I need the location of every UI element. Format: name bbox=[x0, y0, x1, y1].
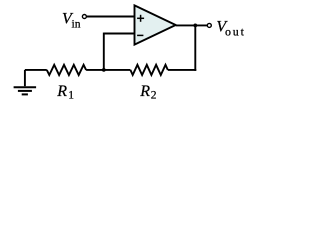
op-amp plus sign (non-inverting input marker) bbox=[137, 15, 144, 22]
svg-text:out: out bbox=[225, 25, 246, 39]
resistor R1 bbox=[47, 65, 86, 75]
resistor R2 bbox=[130, 65, 167, 75]
op-amp minus sign (inverting input marker) bbox=[137, 34, 143, 36]
node A junction dot bbox=[102, 68, 106, 72]
svg-text:R: R bbox=[139, 83, 150, 100]
svg-text:in: in bbox=[72, 18, 81, 30]
wire: R1 to R2 through node A bbox=[86, 69, 130, 71]
svg-text:1: 1 bbox=[68, 90, 74, 102]
Vin input terminal (open circle) bbox=[82, 15, 86, 19]
wire: inverting input horizontal bbox=[104, 33, 135, 35]
wire: feedback vertical down to node A bbox=[103, 33, 105, 70]
wire: output vertical feedback bbox=[194, 25, 196, 70]
ground bbox=[14, 70, 36, 95]
svg-text:R: R bbox=[56, 83, 67, 100]
output node junction dot bbox=[193, 24, 197, 28]
wire: ground to R1 bbox=[25, 69, 47, 71]
op-amp U1 bbox=[135, 5, 176, 44]
wire: op-amp output to Vout terminal bbox=[176, 24, 207, 26]
wire: R2 to output vertical bbox=[168, 69, 196, 71]
svg-text:2: 2 bbox=[151, 90, 157, 102]
wire: Vin terminal to non-inverting input bbox=[87, 16, 135, 18]
Vout output terminal (open circle) bbox=[207, 23, 211, 27]
